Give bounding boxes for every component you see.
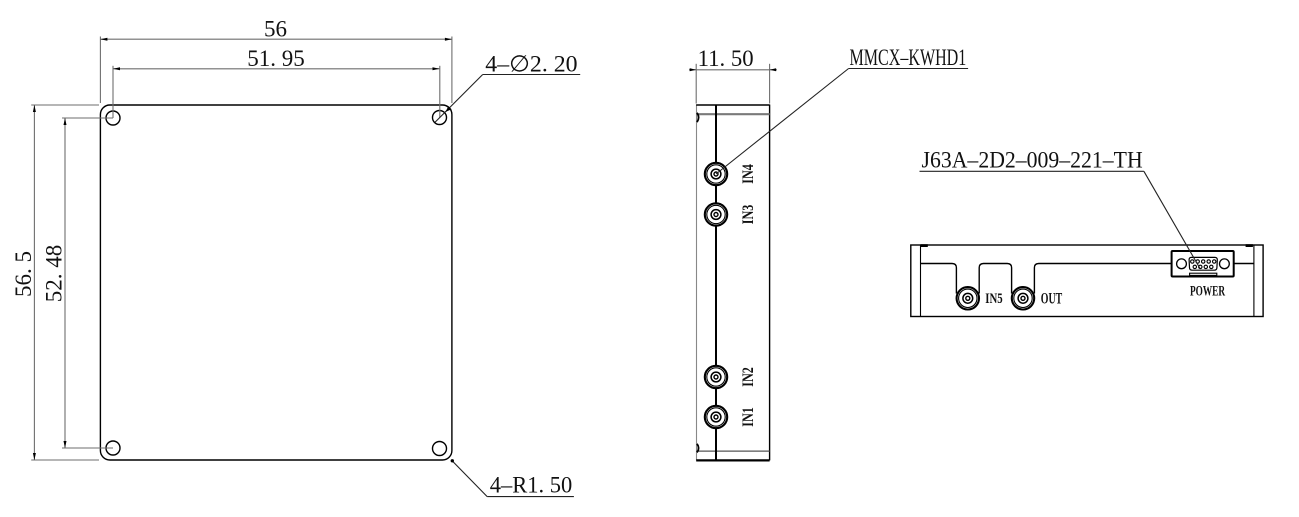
svg-text:MMCX–KWHD1: MMCX–KWHD1 [850,45,967,70]
svg-text:IN5: IN5 [985,291,1002,307]
svg-text:IN4: IN4 [740,164,757,184]
svg-text:IN3: IN3 [740,205,757,225]
svg-text:OUT: OUT [1041,291,1063,308]
svg-text:IN1: IN1 [740,407,757,427]
svg-text:11. 50: 11. 50 [698,46,754,71]
svg-text:52. 48: 52. 48 [41,245,66,303]
svg-text:POWER: POWER [1190,284,1225,300]
svg-text:J63A–2D2–009–221–TH: J63A–2D2–009–221–TH [922,148,1143,173]
svg-text:4–R1. 50: 4–R1. 50 [490,472,573,497]
svg-text:56. 5: 56. 5 [11,251,36,297]
svg-text:56: 56 [264,16,287,41]
svg-text:51. 95: 51. 95 [247,46,305,71]
svg-text:IN2: IN2 [740,367,757,387]
svg-text:4–∅2. 20: 4–∅2. 20 [485,51,577,76]
